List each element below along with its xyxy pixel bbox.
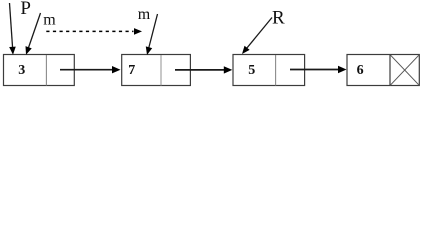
pointer p arrow	[10, 3, 13, 48]
link arrow node2 to node3	[175, 69, 225, 71]
node 2 divider	[160, 55, 162, 86]
node 3 box	[233, 55, 305, 86]
dashed move arrow	[46, 30, 133, 32]
node 3 divider	[275, 55, 277, 86]
node 4 null cross	[390, 55, 419, 86]
node 4 box	[347, 55, 419, 86]
pointer R arrow	[247, 18, 273, 49]
node 2 box	[122, 55, 191, 86]
node 1 divider	[45, 55, 47, 86]
svg-text:P: P	[20, 0, 31, 19]
svg-text:6: 6	[357, 63, 364, 78]
pointer m arrow (right)	[149, 14, 158, 49]
node 1 box	[4, 55, 75, 86]
svg-text:3: 3	[18, 63, 25, 78]
svg-text:m: m	[43, 11, 56, 28]
svg-text:R: R	[272, 8, 285, 29]
node 4 divider	[389, 55, 391, 86]
link arrow node1 to node2	[60, 69, 113, 71]
svg-text:7: 7	[128, 63, 135, 78]
svg-text:5: 5	[248, 63, 255, 78]
pointer m arrow (left)	[28, 13, 40, 49]
link arrow node3 to node4	[290, 69, 339, 71]
svg-text:m: m	[138, 6, 151, 23]
